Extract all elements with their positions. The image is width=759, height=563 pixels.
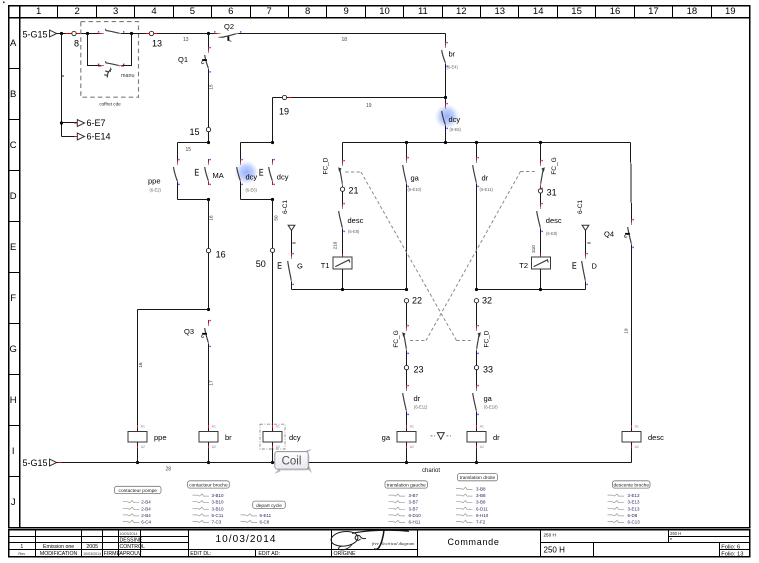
terminal circle 32 bbox=[474, 299, 478, 303]
svg-text:1: 1 bbox=[20, 544, 23, 550]
svg-text:D: D bbox=[10, 191, 17, 202]
svg-text:7-F2: 7-F2 bbox=[476, 520, 486, 525]
xref table contacteur broche bbox=[188, 481, 230, 525]
mech link diagonal FC_G bbox=[426, 172, 521, 341]
svg-text:6-E11: 6-E11 bbox=[260, 513, 272, 518]
push-button MA bbox=[195, 159, 223, 185]
svg-text:br: br bbox=[449, 50, 456, 59]
wire to bus2 bbox=[540, 269, 542, 290]
tooltip Coil bbox=[274, 449, 312, 474]
mech link dashes FC_D bbox=[345, 171, 361, 173]
junction bus2/T2 bbox=[539, 288, 542, 291]
svg-text:5-G15: 5-G15 bbox=[22, 458, 47, 468]
svg-text:4: 4 bbox=[151, 6, 156, 17]
svg-text:ga: ga bbox=[411, 174, 420, 183]
svg-text:ga: ga bbox=[382, 433, 391, 442]
wire bbox=[406, 303, 408, 328]
svg-text:3-B8: 3-B8 bbox=[476, 487, 486, 492]
terminal circle 21 bbox=[340, 187, 344, 191]
svg-text:2005: 2005 bbox=[86, 544, 98, 550]
push-button D bbox=[573, 253, 598, 285]
svg-text:Emission one: Emission one bbox=[43, 544, 74, 550]
junction bbox=[136, 461, 139, 464]
terminal circle 16 bbox=[206, 248, 210, 252]
wire 19 bus bbox=[273, 95, 446, 109]
xref table translation gauche bbox=[385, 481, 428, 525]
wire bbox=[208, 253, 210, 310]
breaker Q4 bbox=[604, 219, 634, 248]
timer relay T2 bbox=[519, 253, 550, 272]
svg-text:J: J bbox=[11, 497, 16, 508]
svg-text:6-E14: 6-E14 bbox=[87, 132, 111, 142]
wire to dr coil bbox=[476, 412, 478, 427]
junction bbox=[271, 461, 274, 464]
junction bus3/dr bbox=[475, 141, 478, 144]
svg-text:A: A bbox=[10, 38, 17, 49]
contact br (6-E4) bbox=[442, 34, 459, 70]
junction bbox=[207, 461, 210, 464]
svg-text:(6-E8): (6-E8) bbox=[546, 231, 558, 236]
wire 8 bbox=[291, 230, 296, 256]
svg-text:FC_G: FC_G bbox=[393, 330, 400, 347]
terminal circle wire 8 bbox=[72, 31, 80, 35]
svg-text:G: G bbox=[297, 262, 303, 271]
svg-text:A1: A1 bbox=[635, 425, 639, 429]
svg-text:6-C13: 6-C13 bbox=[628, 520, 641, 525]
junction bbox=[405, 461, 408, 464]
svg-text:FC_G: FC_G bbox=[551, 157, 558, 174]
svg-text:FC_D: FC_D bbox=[483, 330, 490, 347]
svg-text:6-D8: 6-D8 bbox=[628, 513, 638, 518]
wire bbox=[406, 351, 408, 388]
wire 18 bbox=[238, 34, 445, 43]
svg-text:250 H: 250 H bbox=[670, 531, 681, 536]
wire 16 bbox=[209, 200, 214, 249]
svg-text:A2: A2 bbox=[276, 445, 280, 449]
svg-text:15: 15 bbox=[209, 84, 214, 90]
junction bus3/feed bbox=[444, 141, 447, 144]
wire to ppe coil bbox=[138, 310, 209, 427]
svg-text:32: 32 bbox=[482, 296, 492, 306]
wire pair bottom bar bbox=[177, 199, 208, 201]
svg-text:28: 28 bbox=[166, 466, 172, 472]
svg-text:17: 17 bbox=[209, 380, 214, 386]
svg-text:A2: A2 bbox=[410, 445, 414, 449]
svg-text:C: C bbox=[10, 140, 17, 151]
svg-text:6-H11: 6-H11 bbox=[409, 520, 421, 525]
svg-text:6-D10: 6-D10 bbox=[409, 513, 422, 518]
wire bus2 left bbox=[292, 289, 407, 291]
svg-text:desc: desc bbox=[546, 216, 562, 225]
svg-text:2-B4: 2-B4 bbox=[141, 513, 151, 518]
breaker Q2 bbox=[214, 22, 241, 41]
terminal circle 50 bbox=[270, 248, 274, 252]
coil ga KM3 bbox=[382, 424, 416, 463]
svg-text:16: 16 bbox=[138, 362, 143, 368]
svg-text:8: 8 bbox=[74, 38, 79, 48]
svg-text:free electrical diagram: free electrical diagram bbox=[372, 541, 415, 546]
svg-text:CONTROL: CONTROL bbox=[120, 544, 145, 550]
svg-text:manu: manu bbox=[121, 73, 135, 79]
svg-text:br: br bbox=[225, 433, 232, 442]
coffret cde enclosure (dashed) bbox=[81, 22, 139, 98]
svg-text:(6-E2): (6-E2) bbox=[150, 187, 162, 192]
node 5-G15 source (top) bbox=[22, 29, 56, 39]
coil dr KM4 bbox=[467, 424, 500, 463]
wire to bus2 bbox=[342, 269, 344, 290]
push-button G bbox=[278, 253, 303, 285]
svg-text:Q2: Q2 bbox=[224, 22, 234, 31]
svg-text:3-B8: 3-B8 bbox=[476, 493, 486, 498]
svg-text:31: 31 bbox=[547, 187, 557, 197]
junction bus2/ga bbox=[405, 288, 408, 291]
limit switch FC_G (lower) bbox=[393, 325, 409, 354]
wire to ga coil bbox=[406, 412, 408, 427]
connector 6-E14 bbox=[62, 132, 111, 142]
svg-text:EDIT DL:: EDIT DL: bbox=[190, 551, 211, 557]
svg-text:2-B4: 2-B4 bbox=[141, 500, 151, 505]
wire bottom bus 28 bbox=[57, 462, 632, 464]
svg-text:5-G15: 5-G15 bbox=[22, 29, 47, 39]
svg-text:translation gauche: translation gauche bbox=[387, 483, 427, 489]
svg-text:A1: A1 bbox=[141, 425, 145, 429]
junction 19/feed bbox=[444, 96, 447, 99]
svg-text:210: 210 bbox=[332, 241, 337, 249]
wire top bus 18 bbox=[57, 33, 101, 35]
coil desc KM5 bbox=[622, 424, 664, 463]
wire 50 bbox=[273, 200, 279, 249]
mech link dashes FC_D lower bbox=[457, 340, 474, 342]
wire bbox=[476, 351, 478, 388]
svg-text:13: 13 bbox=[152, 38, 162, 48]
junction node 8 bbox=[60, 32, 63, 35]
svg-text:6-C8: 6-C8 bbox=[260, 520, 270, 525]
wire drop from 19 to dcy pair bbox=[272, 98, 274, 143]
svg-text:(6-E8): (6-E8) bbox=[348, 229, 360, 234]
svg-text:3-E13: 3-E13 bbox=[628, 506, 641, 511]
svg-text:dcy: dcy bbox=[246, 172, 258, 181]
wire bbox=[476, 303, 478, 328]
svg-text:A2: A2 bbox=[635, 445, 639, 449]
svg-text:contacteur pompe: contacteur pompe bbox=[119, 488, 158, 494]
svg-text:250 H: 250 H bbox=[544, 533, 556, 538]
wire 15 bbox=[209, 70, 214, 128]
svg-text:3-B7: 3-B7 bbox=[409, 500, 419, 505]
svg-text:T1: T1 bbox=[321, 261, 330, 270]
contact ga interlock (6-E10) bbox=[473, 385, 499, 415]
svg-text:Coil: Coil bbox=[282, 456, 302, 468]
connector 6-C1 (G) bbox=[282, 200, 295, 231]
junction B (coffret right) bbox=[130, 32, 133, 35]
contact dr interlock (6-E11) bbox=[403, 385, 428, 415]
wire to dcy coil bbox=[272, 252, 274, 426]
wire to bus2 bbox=[291, 282, 293, 290]
svg-text:2: 2 bbox=[74, 6, 79, 17]
svg-text:8: 8 bbox=[291, 241, 296, 244]
svg-text:Folio: 6: Folio: 6 bbox=[721, 545, 740, 551]
svg-text:3: 3 bbox=[113, 6, 118, 17]
contact auto (coffret top) bbox=[98, 29, 125, 34]
svg-text:T2: T2 bbox=[519, 261, 528, 270]
svg-text:desc: desc bbox=[348, 216, 364, 225]
svg-text:*: * bbox=[670, 538, 672, 544]
limit switch FC_G bbox=[541, 143, 559, 190]
svg-text:A1: A1 bbox=[212, 425, 216, 429]
svg-text:descente broche: descente broche bbox=[614, 483, 650, 489]
junction dcy pair bottom bbox=[271, 198, 274, 201]
svg-text:5: 5 bbox=[190, 6, 195, 17]
mech link dashes FC_G bbox=[410, 340, 426, 342]
svg-text:depart cycle: depart cycle bbox=[256, 503, 282, 509]
wire manu branch bbox=[88, 34, 132, 66]
svg-text:33: 33 bbox=[483, 364, 493, 374]
row letter strip bbox=[9, 38, 20, 508]
junction MA pair top bbox=[207, 141, 210, 144]
svg-text:3-E13: 3-E13 bbox=[628, 500, 641, 505]
wire 17 bbox=[209, 344, 214, 427]
contact desc (6-E8) bbox=[537, 193, 562, 236]
svg-text:6-C4: 6-C4 bbox=[141, 520, 151, 525]
column number strip bbox=[36, 6, 736, 18]
svg-text:16: 16 bbox=[610, 6, 621, 17]
svg-text:ga: ga bbox=[484, 394, 493, 403]
coil dcy KA1 (selected) bbox=[260, 424, 301, 463]
svg-text:MODIFICATION: MODIFICATION bbox=[40, 551, 78, 557]
svg-text:250 H: 250 H bbox=[544, 545, 566, 554]
contact ga (6-E10) bbox=[403, 143, 422, 193]
wire bbox=[445, 64, 447, 98]
node 5-G15 return (bottom bus) bbox=[22, 458, 56, 468]
svg-text:G: G bbox=[10, 344, 17, 355]
svg-text:50: 50 bbox=[274, 215, 279, 221]
svg-text:6-H10: 6-H10 bbox=[476, 513, 489, 518]
svg-text:3-B7: 3-B7 bbox=[409, 493, 419, 498]
svg-text:16: 16 bbox=[216, 249, 226, 259]
contact dcy (6-E6) highlighted bbox=[435, 98, 462, 133]
svg-text:FC_D: FC_D bbox=[322, 157, 329, 174]
svg-text:coffret cde: coffret cde bbox=[99, 101, 121, 106]
timer relay T1 bbox=[321, 253, 352, 272]
svg-text:MA: MA bbox=[213, 171, 224, 180]
svg-text:6-E7: 6-E7 bbox=[87, 118, 106, 128]
wire bus2 right bbox=[477, 289, 586, 291]
terminal circle wire 13 bbox=[146, 31, 158, 35]
svg-text:(6-E11): (6-E11) bbox=[414, 405, 428, 410]
terminal circle 31 bbox=[538, 189, 542, 193]
limit switch FC_D (lower) bbox=[477, 325, 491, 354]
xref table translation droite bbox=[456, 474, 498, 525]
terminal circle 33 bbox=[474, 365, 478, 369]
svg-text:dcy: dcy bbox=[449, 115, 461, 124]
svg-text:6: 6 bbox=[228, 6, 233, 17]
svg-text:Folio: 13: Folio: 13 bbox=[721, 551, 743, 557]
svg-text:12: 12 bbox=[456, 6, 467, 17]
svg-text:APROUV: APROUV bbox=[120, 551, 142, 557]
junction dcy pair top bbox=[271, 141, 274, 144]
wire T1 column bbox=[342, 143, 344, 164]
junction 6-E7 tap bbox=[60, 121, 63, 124]
svg-text:15: 15 bbox=[571, 6, 582, 17]
limit switch FC_D bbox=[322, 157, 345, 189]
wire bbox=[121, 33, 217, 35]
svg-text:D: D bbox=[592, 262, 598, 271]
svg-text:E: E bbox=[10, 242, 16, 253]
svg-text:310: 310 bbox=[531, 245, 536, 253]
svg-text:10/03/2014: 10/03/2014 bbox=[83, 552, 101, 556]
wire drop to 6-E7/6-E14 bbox=[60, 34, 65, 137]
svg-text:EDIT AD:: EDIT AD: bbox=[258, 551, 280, 557]
manu actuator bbox=[104, 68, 134, 80]
svg-text:(6-E10): (6-E10) bbox=[484, 405, 498, 410]
svg-text:19: 19 bbox=[279, 107, 289, 117]
svg-text:6-C1: 6-C1 bbox=[577, 200, 584, 214]
wire bbox=[406, 184, 408, 290]
svg-text:6-C11: 6-C11 bbox=[212, 513, 224, 518]
svg-text:dr: dr bbox=[482, 174, 489, 183]
contact manu bbox=[98, 61, 125, 66]
svg-text:13: 13 bbox=[183, 37, 189, 43]
mechanical interlock symbol bbox=[431, 433, 452, 440]
wire 8 bbox=[586, 230, 592, 256]
svg-text:(6-E6): (6-E6) bbox=[246, 187, 258, 192]
svg-text:desc: desc bbox=[648, 433, 664, 442]
mech link diagonal FC_D bbox=[361, 172, 457, 341]
wire 310 bbox=[531, 229, 541, 257]
svg-text:23: 23 bbox=[414, 364, 424, 374]
junction bus2/dr bbox=[475, 288, 478, 291]
mech link dashes FC_G top bbox=[521, 171, 537, 173]
svg-text:H: H bbox=[10, 395, 17, 406]
svg-text:2-B4: 2-B4 bbox=[141, 506, 151, 511]
contact ppe (6-E2) bbox=[148, 143, 180, 200]
svg-text:3-B8: 3-B8 bbox=[476, 500, 486, 505]
junction bbox=[475, 461, 478, 464]
svg-text:A1: A1 bbox=[276, 425, 280, 429]
coil br KM2 bbox=[199, 424, 232, 463]
svg-text:3-B10: 3-B10 bbox=[212, 493, 225, 498]
svg-text:(6-E6): (6-E6) bbox=[450, 127, 462, 132]
contact dr (6-E11) bbox=[473, 143, 494, 193]
svg-text:14: 14 bbox=[533, 6, 544, 17]
svg-text:Q4: Q4 bbox=[604, 229, 614, 238]
xref table contacteur pompe bbox=[115, 486, 162, 524]
svg-text:11: 11 bbox=[418, 6, 428, 17]
svg-text:22: 22 bbox=[412, 296, 422, 306]
breaker Q1 bbox=[178, 34, 211, 73]
svg-text:21: 21 bbox=[349, 185, 359, 195]
svg-text:(6-E4): (6-E4) bbox=[447, 65, 459, 70]
wire Q4 column bbox=[631, 143, 632, 223]
svg-text:ORIGINE: ORIGINE bbox=[334, 551, 356, 557]
xref table descente broche bbox=[608, 481, 651, 525]
svg-text:A2: A2 bbox=[480, 445, 484, 449]
svg-text:Q1: Q1 bbox=[178, 55, 188, 64]
svg-text:18: 18 bbox=[687, 6, 698, 17]
wire pair top bar bbox=[177, 143, 208, 154]
connector 6-C1 (D) bbox=[577, 200, 589, 231]
svg-text:A1: A1 bbox=[410, 425, 414, 429]
svg-text:A1: A1 bbox=[480, 425, 484, 429]
svg-text:F: F bbox=[10, 293, 16, 304]
svg-text:6-C1: 6-C1 bbox=[282, 200, 289, 214]
junction tee bbox=[207, 308, 210, 311]
svg-text:(6-E11): (6-E11) bbox=[480, 187, 494, 192]
svg-text:7-C3: 7-C3 bbox=[212, 520, 222, 525]
junction Q1 top bbox=[207, 32, 210, 35]
svg-text:1: 1 bbox=[36, 6, 41, 17]
svg-text:19: 19 bbox=[366, 103, 372, 109]
wire 19 to desc coil bbox=[624, 245, 632, 424]
title block bbox=[9, 530, 750, 558]
svg-text:10: 10 bbox=[379, 6, 390, 17]
svg-text:10/03/2014: 10/03/2014 bbox=[215, 534, 276, 545]
svg-text:B: B bbox=[10, 89, 16, 100]
svg-text:translation droite: translation droite bbox=[460, 475, 496, 481]
svg-text:Commande: Commande bbox=[447, 537, 499, 547]
contact desc (6-E8) bbox=[339, 191, 364, 234]
terminal circle 22 bbox=[404, 299, 408, 303]
terminal circle 15 bbox=[206, 127, 210, 131]
svg-text:A2: A2 bbox=[141, 445, 145, 449]
svg-text:19: 19 bbox=[725, 6, 736, 17]
svg-text:A2: A2 bbox=[212, 445, 216, 449]
breaker Q3 bbox=[184, 320, 211, 347]
svg-text:7: 7 bbox=[267, 6, 272, 17]
grid origin dot bbox=[3, 2, 5, 4]
svg-text:9: 9 bbox=[343, 6, 348, 17]
svg-text:dr: dr bbox=[493, 433, 500, 442]
svg-text:ppe: ppe bbox=[154, 433, 167, 442]
coil ppe KM1 bbox=[128, 424, 166, 463]
xref table depart cycle bbox=[241, 501, 286, 524]
connector 6-E7 bbox=[62, 118, 106, 128]
svg-text:19: 19 bbox=[624, 328, 629, 334]
svg-text:8: 8 bbox=[305, 6, 310, 17]
wire pair bottom bar bbox=[241, 199, 273, 201]
junction bus3/ga bbox=[405, 141, 408, 144]
svg-text:FIRME: FIRME bbox=[104, 551, 121, 557]
svg-text:dr: dr bbox=[414, 394, 421, 403]
svg-text:(6-E10): (6-E10) bbox=[408, 187, 422, 192]
push-button dcy bbox=[260, 159, 289, 185]
svg-text:50: 50 bbox=[256, 259, 266, 269]
svg-text:I: I bbox=[12, 446, 15, 457]
svg-text:Q3: Q3 bbox=[184, 327, 194, 336]
svg-text:3-B10: 3-B10 bbox=[212, 506, 225, 511]
svg-text:13: 13 bbox=[495, 6, 506, 17]
svg-text:dcy: dcy bbox=[289, 433, 301, 442]
svg-text:DESSINE: DESSINE bbox=[120, 537, 143, 543]
contact dcy (6-E6) highlighted bbox=[235, 143, 259, 200]
terminal circle 23 bbox=[404, 365, 408, 369]
wire bbox=[476, 184, 478, 290]
svg-text:Rev: Rev bbox=[18, 552, 25, 556]
svg-text:dcy: dcy bbox=[277, 172, 289, 181]
svg-text:3-B7: 3-B7 bbox=[409, 506, 419, 511]
svg-text:chariot: chariot bbox=[422, 468, 440, 474]
wire bbox=[208, 132, 210, 143]
svg-text:ppe: ppe bbox=[148, 177, 161, 186]
svg-text:6-D11: 6-D11 bbox=[476, 506, 488, 511]
svg-text:8: 8 bbox=[587, 241, 592, 244]
junction MA pair bottom bbox=[207, 198, 210, 201]
svg-text:16: 16 bbox=[209, 215, 214, 221]
wire to bus2 bbox=[585, 282, 587, 290]
svg-text:15: 15 bbox=[186, 147, 192, 153]
svg-text:17: 17 bbox=[648, 6, 659, 17]
junction A (coffret left) bbox=[86, 32, 89, 35]
svg-text:contacteur broche: contacteur broche bbox=[189, 483, 228, 489]
